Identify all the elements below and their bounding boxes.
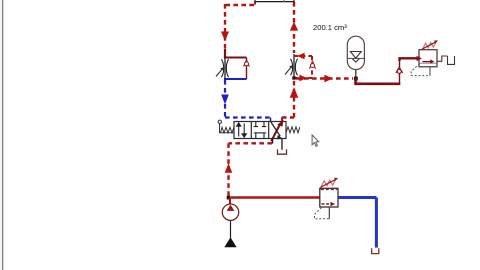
flow arrow right (324, 75, 332, 83)
wire accumulator junction to relief valve RV1 (solid maroon) (356, 58, 419, 84)
flow arrow up (290, 22, 298, 31)
accumulator gas symbol (350, 52, 361, 63)
wire stub into FCV1 (solid maroon) (224, 49, 226, 58)
pump P1 (222, 198, 238, 248)
cylinder (cut off at top edge) (255, 0, 294, 5)
FCV2 adjustment arrow (285, 67, 291, 74)
RV1 adjust arrow (422, 42, 436, 49)
accumulator stem (355, 70, 357, 79)
tank RV1 (447, 56, 455, 64)
FCV1 bypass loop top (pressurized) (224, 57, 247, 59)
tank T (277, 149, 287, 154)
wire FCV2 to accumulator junction (dashed red) (296, 77, 353, 79)
flow arrow up on B wire (290, 87, 299, 97)
svg-text:200.1 cm³: 200.1 cm³ (313, 23, 347, 32)
FCV1 check valve (244, 60, 250, 67)
screen left edge (2, 0, 3, 270)
pressure relief valve RV1 (411, 40, 455, 75)
port P stub (272, 139, 274, 144)
junction pump node (227, 196, 231, 200)
RV1 internal flow arrow (423, 61, 431, 63)
wire FCV1 to valve port A (dashed blue) (225, 80, 270, 118)
flow arrow up on P wire (225, 163, 233, 173)
wire RV2 to tank (solid blue) (338, 198, 376, 248)
port B stub (281, 117, 283, 122)
4/3 directional control valve U1 (234, 122, 286, 139)
wire pump to relief valve RV2 (solid red) (231, 196, 320, 198)
RV2 pilot line (dashed) (315, 208, 330, 219)
flow arrow down on blue wire (221, 95, 229, 105)
pump suction line (230, 220, 232, 238)
valve right spring (286, 127, 300, 133)
flow arrow down on left wire (221, 32, 229, 42)
RV1 inlet arrow (417, 56, 422, 61)
accumulator (200.1 cm3) (347, 36, 364, 69)
wire valve B to FCV2 (dashed red) (282, 80, 294, 118)
mouse cursor (312, 135, 319, 146)
valve left spring (with rail) (218, 120, 234, 133)
tank at blue line end (371, 248, 379, 253)
FCV1 bypass right leg (246, 58, 248, 80)
valve body (234, 122, 286, 139)
wire FCV2 to cylinder right port (dashed red) (293, 2, 295, 53)
FCV1 main line (224, 58, 226, 80)
RV2 top edge dashes (321, 189, 337, 191)
FCV1 throttle arcs (221, 59, 223, 77)
FCV1 adjustment arrow (216, 69, 222, 76)
FCV2 loop arrow right (bottom) (299, 75, 306, 82)
FCV2 bypass loop dashed red (294, 56, 312, 78)
RV2 spring (321, 180, 335, 187)
RV1 pilot line (dashed) (411, 64, 430, 76)
valve right position (active): crossed arrows (271, 120, 283, 141)
check valve CV1 (396, 67, 403, 73)
flow control valve FCV1 (one-way, A-line) (216, 58, 249, 80)
valve centre position: blocked ports (254, 122, 267, 139)
RV2 adjust arrow (320, 180, 335, 188)
junction accumulator node (354, 77, 358, 81)
wire valve P to pump (dashed red) (229, 143, 273, 196)
FCV1 bypass loop bottom (tank pressure) (224, 78, 247, 80)
valve left position: parallel arrows (237, 123, 247, 137)
pressure relief valve RV2 (315, 178, 339, 219)
port A stub (270, 118, 272, 123)
wire cylinder-left to FCV1 (dashed red) (225, 4, 254, 50)
FCV2 main line (293, 54, 295, 78)
junction FCV2 bottom (292, 76, 295, 79)
FCV2 loop arrow left (top) (297, 53, 304, 60)
flow control valve FCV2 (one-way, B-line) (285, 53, 316, 82)
FCV2 check valve (310, 61, 316, 69)
FCV2 throttle arcs (290, 59, 292, 75)
RV2 internal flow arrow (active) (322, 203, 331, 205)
pump suction tank triangle (224, 237, 236, 247)
port T stub and tank under valve (281, 139, 283, 150)
RV1 spring (423, 42, 436, 48)
RV1 outlet to tank (437, 56, 448, 61)
